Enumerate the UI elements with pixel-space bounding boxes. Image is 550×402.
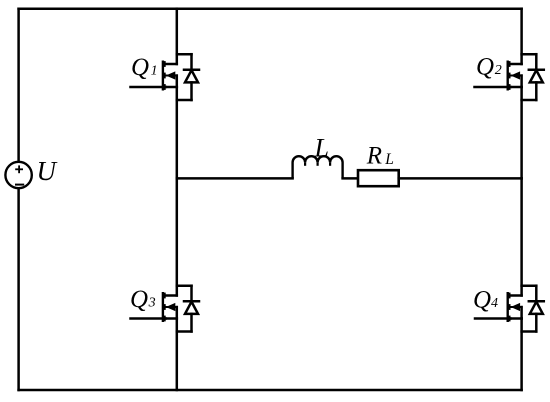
Q2 gate bar <box>507 61 509 91</box>
svg-text:Q: Q <box>131 54 149 81</box>
top rail <box>19 7 522 10</box>
right branch mid rail to Q4 drain <box>520 178 523 295</box>
gate lead Q1 <box>131 86 166 89</box>
right branch Q4 source to bottom rail <box>520 319 523 391</box>
resistor RL <box>358 170 399 186</box>
left rail lower segment <box>17 189 20 390</box>
Q2 source wire <box>510 86 521 89</box>
transistor Q3 <box>162 286 199 332</box>
transistor Q2 <box>507 54 544 100</box>
mid rail right segment <box>399 177 522 180</box>
svg-text:4: 4 <box>491 296 498 311</box>
body diode of Q1 <box>177 54 199 100</box>
Q3 source wire <box>166 317 177 320</box>
svg-text:3: 3 <box>148 296 156 311</box>
svg-text:Q: Q <box>476 54 494 81</box>
right branch Q2 source to mid rail <box>520 87 523 178</box>
right branch drain lead Q2 <box>520 9 523 64</box>
Q1 source wire <box>166 86 177 89</box>
plus sign <box>15 165 23 173</box>
Q2 body wire with arrow <box>510 71 521 79</box>
Q4 body wire with arrow <box>510 303 521 311</box>
Q3 gate bar <box>162 292 164 322</box>
Q1 body wire with arrow <box>166 71 177 79</box>
Q4 channel segments <box>508 293 511 322</box>
svg-text:1: 1 <box>151 64 158 79</box>
Q3 body wire with arrow <box>166 303 177 311</box>
Q2 channel segments <box>508 61 511 90</box>
svg-text:L: L <box>314 134 329 163</box>
gate lead Q4 <box>475 317 510 320</box>
Q1 channel segments <box>163 61 166 90</box>
minus sign <box>15 184 24 186</box>
Q3 drain wire <box>166 294 177 297</box>
svg-text:R: R <box>366 142 382 169</box>
svg-text:Q: Q <box>473 287 491 314</box>
svg-text:L: L <box>384 151 394 168</box>
Q3 source-body vertical <box>176 307 179 319</box>
left branch Q1 source to mid rail <box>176 87 179 178</box>
svg-text:Q: Q <box>130 286 148 313</box>
svg-text:2: 2 <box>495 63 502 78</box>
gate lead Q3 <box>131 317 166 320</box>
bottom rail <box>19 389 522 392</box>
inductor L <box>293 156 343 178</box>
Q3 channel segments <box>163 293 166 322</box>
Q4 source-body vertical <box>520 307 523 319</box>
Q2 drain wire <box>510 63 521 66</box>
mid rail segment between L and RL <box>343 177 358 180</box>
body diode of Q4 <box>522 286 544 332</box>
left branch mid rail to Q3 drain <box>176 178 179 295</box>
left rail upper segment <box>17 9 20 161</box>
left branch drain lead Q1 <box>176 9 179 64</box>
body diode of Q2 <box>522 54 544 100</box>
Q4 gate bar <box>507 292 509 322</box>
Q4 drain wire <box>510 294 521 297</box>
Q1 drain wire <box>166 63 177 66</box>
mid rail left segment <box>177 177 293 180</box>
body diode of Q3 <box>177 286 199 332</box>
Q1 gate bar <box>162 61 164 91</box>
Q1 source-body vertical <box>176 76 179 88</box>
transistor Q4 <box>507 286 544 332</box>
Q4 source wire <box>510 317 521 320</box>
gate lead Q2 <box>475 86 511 89</box>
voltage source U <box>5 162 31 188</box>
Q2 source-body vertical <box>520 76 523 88</box>
left branch Q3 source to bottom rail <box>176 319 179 391</box>
transistor Q1 <box>162 54 199 100</box>
svg-text:U: U <box>37 156 58 186</box>
